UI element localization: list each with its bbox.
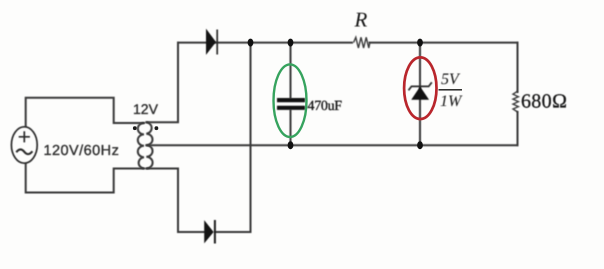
wire secondary top to top rail (146, 43, 178, 123)
wire bottom rail (146, 144, 517, 146)
resistor R zigzag (354, 37, 370, 48)
wire primary loop top (26, 98, 144, 144)
svg-text:120V/60Hz: 120V/60Hz (44, 143, 120, 159)
wire riser diode2 to top rail (250, 43, 252, 232)
transformer T1 primary winding (138, 123, 144, 169)
transformer phase dot secondary (155, 126, 159, 130)
node junction dot zener bottom (417, 141, 423, 149)
node junction dot zener top (417, 39, 423, 47)
svg-text:5V: 5V (441, 71, 461, 88)
diode D1 top (206, 30, 217, 55)
capacitor C1 plates (277, 100, 305, 108)
wire top rail (178, 42, 352, 44)
svg-text:R: R (354, 8, 368, 32)
wire secondary bottom to bottom diode (146, 169, 204, 233)
wire right branch down (517, 43, 519, 92)
wire primary loop bottom (26, 146, 144, 193)
wire bottom diode to riser (216, 231, 251, 233)
svg-text:470uF: 470uF (308, 99, 343, 114)
AC source V1 circle (11, 127, 37, 163)
wire top rail right of resistor (370, 42, 518, 44)
highlight green ellipse around capacitor (274, 64, 307, 137)
wire capacitor bottom lead (290, 111, 292, 146)
zener diode Z1 (409, 82, 432, 99)
wire zener leads (419, 43, 421, 146)
wire right branch lower (517, 112, 519, 145)
svg-text:680Ω: 680Ω (521, 90, 568, 112)
svg-text:1W: 1W (440, 93, 463, 110)
node junction dot top-left (248, 39, 254, 47)
svg-text:12V: 12V (133, 101, 159, 117)
wire capacitor top lead (290, 43, 292, 98)
diode D2 bottom (205, 220, 215, 244)
transformer T1 secondary winding (146, 122, 152, 168)
highlight red ellipse around zener (404, 57, 436, 119)
node junction dot cap bottom (288, 141, 294, 149)
resistor R2 680ohm zigzag (513, 91, 518, 112)
label 5V over 1W fraction (439, 71, 464, 110)
transformer phase dot primary (133, 126, 137, 130)
node junction dot cap top (288, 39, 294, 47)
